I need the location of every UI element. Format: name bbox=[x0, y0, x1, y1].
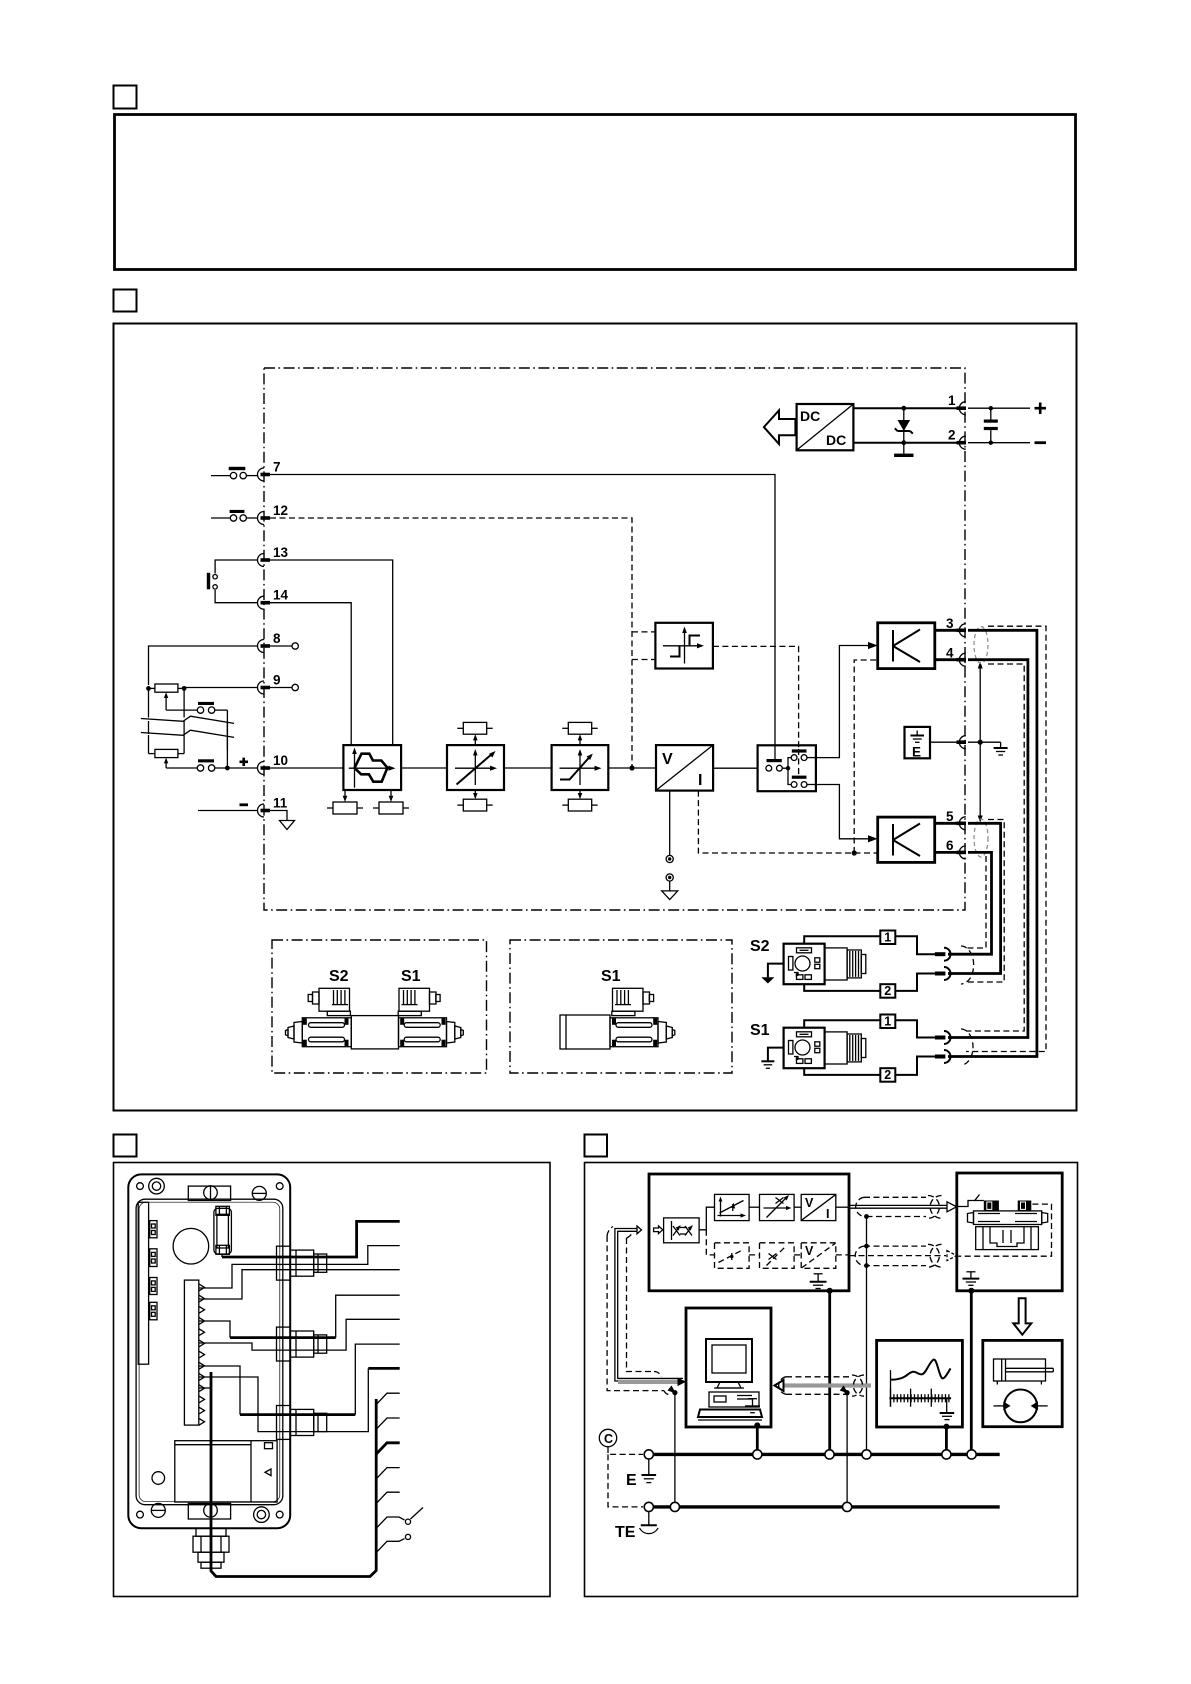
scope shield drain to TE bus bbox=[846, 1393, 848, 1507]
pin bar S1-2 bbox=[935, 1055, 946, 1059]
wire pin7 to relay bbox=[270, 475, 775, 760]
hollow down arrow to cylinder bbox=[1013, 1298, 1031, 1335]
main schematic panel frame bbox=[114, 324, 1077, 1111]
spade connector 1 bbox=[150, 1221, 157, 1238]
E bus label and earth bbox=[626, 1459, 656, 1489]
NC contact on plus line bbox=[197, 759, 258, 771]
main signal wire pin10 to generator bbox=[270, 767, 343, 769]
ground triangle at pin 11 bbox=[280, 821, 295, 830]
terminal tag 2 of S1 bbox=[880, 1068, 895, 1082]
svg-text:9: 9 bbox=[273, 673, 281, 688]
plus terminal label bbox=[1035, 403, 1047, 415]
shield drop junction dots bbox=[864, 1214, 869, 1268]
ramp box T1 bbox=[715, 1194, 750, 1220]
S1 coil connector on single valve bbox=[612, 988, 654, 1015]
minus terminal label bbox=[1035, 441, 1047, 444]
svg-text:5: 5 bbox=[946, 809, 954, 824]
dashed wire pin12 to signal junction bbox=[270, 518, 632, 768]
shield bundle stub 1 bbox=[376, 1393, 400, 1404]
spade connector 3 bbox=[150, 1278, 157, 1295]
corner screw bottom-right bbox=[254, 1507, 284, 1523]
single solenoid valve drawing bbox=[560, 1015, 675, 1049]
wire pin14 to generator input bbox=[270, 603, 351, 745]
wire V-I to relay bbox=[713, 767, 758, 769]
svg-text:S2: S2 bbox=[329, 968, 349, 985]
comparator box bbox=[655, 623, 713, 669]
cable gland top bbox=[277, 1246, 327, 1280]
valve variant box dash-dot left bbox=[272, 940, 487, 1073]
junction dot at plus line bbox=[225, 766, 230, 771]
svg-text:V: V bbox=[662, 751, 673, 768]
shield dashes around command cable bbox=[856, 1196, 942, 1219]
terminal tag 2 of S2 bbox=[880, 984, 895, 998]
wire E box to pin bbox=[930, 741, 958, 743]
wire mid feed bbox=[199, 1321, 230, 1338]
terminal pin 14 bbox=[258, 588, 289, 610]
svg-text:DC: DC bbox=[800, 408, 820, 424]
pin bar S2-2 bbox=[935, 972, 946, 976]
double solenoid valve drawing bbox=[286, 1016, 464, 1049]
svg-text:S1: S1 bbox=[401, 968, 421, 985]
oscilloscope time scale bbox=[889, 1389, 951, 1407]
lower optocoupler K bbox=[878, 817, 935, 862]
command cable arrow to valve bbox=[849, 1202, 957, 1212]
terminal pin 8 bbox=[258, 631, 282, 653]
junction dot at E pin bbox=[978, 740, 983, 745]
junction dot on dashed feedback bbox=[852, 850, 857, 855]
S2 coil connector on valve bbox=[308, 988, 350, 1015]
marker square 4 bbox=[585, 1135, 608, 1157]
enclosure lid outline bbox=[136, 1199, 283, 1505]
TE bus bbox=[649, 1505, 1000, 1508]
wire pin8 to potentiometer chain bbox=[149, 646, 259, 685]
bottom cable gland bbox=[193, 1528, 229, 1568]
grey feedback bar into PC bbox=[618, 1378, 686, 1387]
S1 plug wire 1 bbox=[804, 1020, 880, 1027]
dashed stub to comparator lower input bbox=[632, 659, 655, 661]
oscilloscope box bbox=[877, 1340, 963, 1427]
oscilloscope earth bbox=[940, 1398, 955, 1419]
corner screw bottom-left bbox=[137, 1503, 166, 1518]
enclosure lid inner edge bbox=[139, 1202, 280, 1502]
shield dashed outer run pins5-6 cable bbox=[966, 820, 1004, 983]
DC-DC converter box bbox=[797, 404, 854, 450]
scope shield arrow and dot bbox=[840, 1386, 850, 1396]
wire contact to signal junction bbox=[226, 710, 228, 768]
terminal pin 7 bbox=[258, 460, 281, 482]
spade connector 4 bbox=[150, 1302, 157, 1320]
fuse feed wire bbox=[221, 1254, 223, 1257]
svg-text:I: I bbox=[826, 1207, 829, 1221]
generator trimmer P1 bbox=[327, 790, 363, 814]
wire tag1 to pin bbox=[895, 936, 935, 954]
wire DC-DC minus rail bbox=[853, 442, 959, 444]
earth bus E bbox=[649, 1453, 1000, 1456]
wire pin5 bbox=[935, 822, 958, 825]
terminal pin 10 bbox=[258, 753, 289, 775]
pin bar S1-1 bbox=[935, 1036, 946, 1040]
shield bundle stub 3 bbox=[376, 1443, 400, 1454]
bottom mounting tab bbox=[188, 1503, 230, 1519]
dashed shield around feedback loop bbox=[607, 1227, 671, 1395]
valve feed wire bbox=[957, 1195, 984, 1207]
terminal pin E bbox=[957, 736, 967, 749]
wire C to V-I converter bbox=[608, 767, 656, 769]
valve earth conductor bbox=[970, 1291, 973, 1455]
C dashed links to buses bbox=[608, 1447, 643, 1507]
wire bottom cable thick bbox=[240, 1413, 355, 1416]
wire staircase top cable thick bbox=[222, 1221, 400, 1257]
small hole bottom-left bbox=[152, 1472, 165, 1485]
shield bundle stub 2 bbox=[376, 1418, 400, 1429]
dashed links D1-D2-D3 bbox=[749, 1254, 849, 1256]
C reference circle bbox=[599, 1429, 616, 1446]
PC system unit bbox=[709, 1392, 759, 1407]
plus label bbox=[240, 758, 249, 766]
svg-text:11: 11 bbox=[273, 796, 288, 811]
S1 plug pin hooks bbox=[944, 1031, 951, 1063]
valve variant box dash-dot right bbox=[510, 940, 732, 1073]
X1 dashed branch down bbox=[706, 1230, 714, 1255]
shield arrow to TE junction bbox=[668, 1386, 678, 1396]
PC earth conductor bbox=[756, 1425, 759, 1454]
shield dashed inner run pins5-6 cable bbox=[966, 856, 986, 948]
shield drop wire to earth bus bbox=[866, 1217, 868, 1455]
wire tag1 to S1 pin bbox=[895, 1020, 935, 1037]
svg-text:1: 1 bbox=[884, 931, 891, 945]
terminal pin 6 bbox=[946, 838, 966, 859]
valve unit dashed boundary bbox=[958, 1204, 1051, 1256]
wire relay to upper optocoupler bbox=[816, 642, 878, 758]
wire pin3 bbox=[935, 629, 958, 632]
shield dashed inner run pins3-4 cable bbox=[966, 664, 1024, 1031]
NC contact on R1 wiper bbox=[197, 702, 227, 713]
wire mid stub up bbox=[336, 1295, 400, 1337]
wire bottom feed bbox=[199, 1366, 240, 1415]
cable wire pin5 to S2 plug bbox=[948, 823, 1001, 973]
shield arc at S1 plug pins bbox=[961, 1029, 973, 1065]
PC keyboard bbox=[698, 1410, 762, 1421]
svg-text:TE: TE bbox=[615, 1524, 636, 1541]
svg-text:S1: S1 bbox=[601, 968, 621, 985]
miniature valve body bbox=[968, 1201, 1048, 1250]
valve unit earth bbox=[963, 1272, 980, 1286]
cable break mark upper bbox=[141, 716, 234, 723]
verticals below break to R2 bbox=[149, 735, 228, 754]
S2 plug pin hooks bbox=[944, 948, 951, 980]
grey scope cable to PC bbox=[775, 1380, 872, 1391]
gain box B bbox=[447, 745, 504, 790]
svg-text:I: I bbox=[698, 772, 702, 789]
dashed feedback to upper optocoupler bbox=[854, 660, 878, 853]
svg-text:3: 3 bbox=[946, 616, 954, 631]
wires T1-T2-T3 bbox=[749, 1206, 849, 1208]
V-I dashed feedback lead bbox=[698, 791, 877, 853]
wire pin13 to generator input bbox=[270, 560, 393, 745]
test point circle 2 bbox=[666, 874, 673, 881]
svg-text:2: 2 bbox=[884, 1068, 891, 1082]
svg-text:14: 14 bbox=[273, 588, 289, 603]
wire at pin 11 bbox=[198, 810, 258, 812]
wire top cable mid bbox=[199, 1246, 400, 1288]
wire relay to lower optocoupler bbox=[816, 785, 878, 843]
S2 plug wire 2 bbox=[804, 984, 880, 991]
PC box bbox=[686, 1308, 771, 1427]
earth conductor through bottom gland bbox=[211, 1372, 376, 1577]
terminal pin 12 bbox=[258, 503, 289, 525]
wire bottom stub thick bbox=[368, 1367, 399, 1370]
shield ellipse at pins 3-4 bbox=[974, 627, 988, 664]
vertical link R1 right to R2 right bbox=[183, 688, 185, 717]
transformer block bbox=[175, 1441, 277, 1502]
wire top cable low bbox=[199, 1270, 400, 1299]
dashed shield around scope cable bbox=[779, 1375, 864, 1396]
svg-text:1: 1 bbox=[884, 1015, 891, 1029]
potentiometer R2 bbox=[149, 749, 185, 768]
terminal pin 4 bbox=[946, 646, 966, 667]
cable wire pin4 to S1 plug bbox=[948, 660, 1028, 1038]
svg-text:12: 12 bbox=[273, 503, 288, 518]
wire bottom cable thin bbox=[199, 1368, 368, 1431]
test tap circle at pin 9 bbox=[270, 684, 298, 690]
terminal pin 5 bbox=[946, 809, 966, 830]
electronics earth conductor bbox=[828, 1291, 831, 1455]
top mounting tab bbox=[188, 1186, 230, 1201]
dashed stub to comparator upper input bbox=[632, 631, 655, 633]
gain box T2 bbox=[760, 1194, 795, 1220]
S1 coil connector on valve bbox=[398, 988, 440, 1015]
feedback loop double line bbox=[615, 1226, 683, 1381]
oscilloscope earth conductor bbox=[945, 1427, 948, 1455]
svg-text:V: V bbox=[805, 1244, 814, 1258]
shield arc at S2 plug pins bbox=[961, 946, 974, 984]
DIN rail strip bbox=[138, 1202, 148, 1364]
TE label and earth bbox=[615, 1512, 658, 1542]
limiter box C bbox=[552, 745, 609, 790]
vertical link R1 to R2 bbox=[148, 688, 150, 717]
terminal pin 11 bbox=[258, 796, 288, 818]
terminal pin 1 bbox=[948, 393, 966, 415]
cable wire pin6 to S2 plug bbox=[948, 852, 992, 954]
wire DC-DC plus rail bbox=[853, 407, 959, 409]
V-I box T3 bbox=[801, 1194, 836, 1221]
electronics earth junction dot bbox=[827, 1288, 833, 1294]
svg-text:8: 8 bbox=[273, 631, 281, 646]
wire B to C bbox=[504, 767, 552, 769]
enclosure panel frame bbox=[114, 1163, 551, 1597]
ground triangle below test points bbox=[662, 881, 678, 900]
wire A to B bbox=[401, 767, 447, 769]
enclosure outer shell bbox=[128, 1174, 290, 1528]
S2 plug earth lead bbox=[761, 964, 783, 984]
earth bus terminals bbox=[644, 1450, 976, 1459]
svg-text:DC: DC bbox=[826, 432, 846, 448]
NC switch contact at pin 7 bbox=[211, 467, 258, 479]
earth wire outside bbox=[968, 742, 1008, 755]
fuse holder bbox=[214, 1206, 232, 1254]
PC monitor bbox=[706, 1339, 752, 1388]
TE bus terminals bbox=[644, 1502, 852, 1511]
dashed monitor box D3 bbox=[801, 1243, 836, 1269]
wire tag2 to S1 pin bbox=[895, 1057, 935, 1075]
dashed monitor box D1 bbox=[715, 1243, 750, 1269]
svg-text:4: 4 bbox=[946, 646, 954, 661]
wire bottom stub up bbox=[355, 1344, 399, 1415]
V-I test lead bbox=[669, 791, 671, 856]
strip to earth link bbox=[199, 1387, 211, 1389]
verticals between break marks bbox=[149, 721, 228, 736]
corner screw top-left bbox=[137, 1178, 165, 1194]
pin bar S2-1 bbox=[935, 952, 946, 956]
setpoint processing box X1 bbox=[664, 1218, 700, 1243]
terminal tag 1 of S2 bbox=[880, 931, 895, 945]
V-I converter box bbox=[656, 745, 713, 791]
wire pin6 bbox=[935, 851, 958, 854]
push-button between pins 13 and 14 bbox=[207, 560, 258, 603]
terminal pin 9 bbox=[258, 673, 281, 695]
shield bundle stub 5 bbox=[376, 1492, 400, 1503]
trimmer below B bbox=[457, 789, 492, 811]
svg-text:1: 1 bbox=[948, 393, 956, 408]
earth reference box E bbox=[905, 727, 931, 760]
electronics internal earth bbox=[810, 1274, 827, 1289]
potentiometer R1 bbox=[146, 684, 186, 710]
wire pin11 to ground bbox=[270, 811, 287, 821]
X1 output wire up bbox=[699, 1207, 714, 1230]
dashed monitor box D2 bbox=[760, 1243, 795, 1269]
shield dashes around feedback cable bbox=[855, 1244, 941, 1267]
cable gland bottom bbox=[277, 1406, 327, 1440]
terminal pin 13 bbox=[258, 545, 289, 567]
terminal tag 1 of S1 bbox=[880, 1015, 895, 1029]
S2 cable socket plug bbox=[784, 944, 866, 985]
terminal pin 2 bbox=[948, 428, 966, 450]
upper optocoupler K bbox=[878, 623, 935, 669]
trimmer above C bbox=[562, 722, 597, 745]
rotation symbol bbox=[994, 1390, 1048, 1423]
function generator box A bbox=[343, 745, 401, 790]
zener diode across supply bbox=[894, 406, 913, 457]
R1 wiper wire to NC contact bbox=[166, 709, 197, 711]
cable grommet circle bbox=[173, 1228, 209, 1264]
comparator output dashed wire bbox=[713, 646, 799, 749]
oscilloscope trace bbox=[891, 1360, 951, 1407]
svg-text:S2: S2 bbox=[750, 938, 770, 955]
S1 plug earth lead bbox=[761, 1048, 783, 1069]
cylinder drawing bbox=[994, 1359, 1054, 1385]
cylinder box bbox=[983, 1340, 1062, 1426]
amplifier boundary chain-dot box bbox=[264, 368, 965, 910]
spade connector 2 bbox=[150, 1249, 157, 1267]
R2 wiper wire bbox=[166, 767, 197, 769]
svg-text:S1: S1 bbox=[750, 1022, 770, 1039]
svg-text:13: 13 bbox=[273, 545, 289, 560]
text frame box bbox=[115, 115, 1076, 270]
S2 plug wire 1 bbox=[804, 936, 880, 943]
wire tag2 to pin bbox=[895, 974, 935, 991]
supply wires to capacitor bbox=[968, 408, 1030, 443]
terminal strip bbox=[184, 1280, 198, 1425]
marker square 2 bbox=[114, 290, 137, 312]
valve unit box bbox=[957, 1173, 1062, 1291]
cable wire pin3 to S1 plug bbox=[948, 630, 1037, 1056]
NC switch contact at pin 12 bbox=[211, 510, 258, 521]
PC internal earth bbox=[745, 1399, 760, 1413]
terminal strip contacts bbox=[199, 1284, 205, 1425]
marker square 3 bbox=[114, 1135, 137, 1157]
svg-text:E: E bbox=[626, 1472, 637, 1489]
svg-text:V: V bbox=[805, 1196, 814, 1210]
wire pin4 bbox=[935, 658, 958, 661]
generator trimmer P2 bbox=[373, 790, 409, 814]
PC earth junction dot bbox=[754, 1422, 760, 1428]
wire mid cable thin bbox=[199, 1319, 400, 1350]
S1 cable socket plug bbox=[784, 1028, 866, 1069]
oscilloscope earth junction dot bbox=[943, 1424, 949, 1430]
filter capacitor bbox=[984, 406, 998, 445]
shield ellipse at pins 5-6 bbox=[974, 819, 988, 857]
junction dot on signal line bbox=[629, 765, 634, 770]
test point circle 1 bbox=[666, 855, 673, 862]
shield bundle stub 4 bbox=[376, 1468, 400, 1479]
shield bundle stub 7 with switch bbox=[376, 1534, 410, 1552]
cable gland middle bbox=[277, 1327, 327, 1361]
svg-text:7: 7 bbox=[273, 460, 281, 475]
relay box bbox=[758, 745, 816, 791]
svg-text:2: 2 bbox=[884, 984, 891, 998]
equalizing link pin4 to pin5 bbox=[978, 662, 983, 823]
test tap circle at pin 8 bbox=[270, 643, 298, 649]
electronics unit box bbox=[649, 1174, 849, 1291]
hollow arrow into X1 bbox=[654, 1226, 663, 1234]
S1 plug wire 2 bbox=[804, 1068, 880, 1075]
cable break mark lower bbox=[141, 730, 234, 737]
svg-text:C: C bbox=[604, 1432, 613, 1446]
corner screw top-right bbox=[252, 1183, 283, 1201]
svg-text:6: 6 bbox=[946, 838, 954, 853]
svg-text:2: 2 bbox=[948, 428, 956, 443]
wire pin9 to potentiometer junction bbox=[184, 687, 258, 689]
feedback cable dashed to valve bbox=[849, 1251, 957, 1261]
svg-text:E: E bbox=[912, 745, 921, 760]
shield dashed outer run pins3-4 cable bbox=[966, 626, 1046, 1051]
trimmer below C bbox=[562, 789, 597, 811]
wire mid cable thick bbox=[230, 1336, 336, 1339]
shield bundle stub 6 with switch bbox=[376, 1508, 423, 1529]
svg-text:10: 10 bbox=[273, 753, 288, 768]
shield drain wire to TE bus bbox=[674, 1393, 676, 1507]
hollow arrow left of DC-DC bbox=[764, 410, 796, 444]
trimmer above B bbox=[457, 722, 492, 745]
valve earth junction dot bbox=[968, 1288, 974, 1294]
minus label bbox=[240, 803, 249, 806]
terminal pin 3 bbox=[946, 616, 966, 637]
system panel frame bbox=[585, 1163, 1078, 1597]
marker square 1 bbox=[114, 86, 137, 109]
